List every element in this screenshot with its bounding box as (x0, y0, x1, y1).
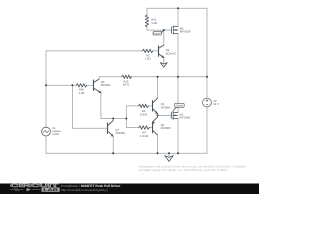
svg-text:2N3906: 2N3906 (161, 126, 171, 130)
resistor R6 (139, 126, 150, 129)
source V1 square 4kHz (42, 127, 51, 136)
wire R6 to Q2 base (149, 127, 152, 129)
source V2 12V (203, 98, 212, 107)
wire R34 to Q6 base (87, 84, 94, 86)
wire Q6 collector to R16 (99, 77, 122, 78)
wire Q6 base from left rail (46, 84, 76, 86)
resistor R3 (143, 49, 153, 52)
mosfet M2 IRF9530 (P-ch) (172, 26, 179, 34)
wire top-left horizontal to R3 (46, 50, 143, 52)
svg-text:2N3904: 2N3904 (115, 131, 125, 135)
footer bar (0, 183, 259, 194)
svg-text:12 V: 12 V (213, 102, 219, 106)
resistor R41 (145, 15, 148, 27)
wire Q7 collector up to input wire (112, 119, 114, 121)
svg-text:simulate using CircuitLab, run: simulate using CircuitLab, run the NPN p… (139, 169, 228, 172)
logo LAB box (42, 188, 60, 192)
resistor R2 (139, 104, 149, 107)
svg-text:1 kΩ: 1 kΩ (78, 91, 84, 95)
logo wire + arrow (10, 188, 40, 190)
wire right rail lower (V2 minus to bottom rail) (206, 107, 208, 153)
wire Q7 base from left branch vertical (72, 85, 107, 128)
node GateP flag (153, 30, 164, 35)
wire gate node to M1 gate (158, 114, 172, 116)
svg-text:220 Ω: 220 Ω (140, 112, 148, 116)
wire Q4 collector vertical to GateP node (163, 30, 165, 45)
wire Q4 emitter vertical to ground (163, 58, 165, 63)
wire R41 top stub (146, 8, 148, 15)
svg-text:2N3904: 2N3904 (101, 83, 111, 87)
wire top rail +12V (147, 7, 207, 9)
wire bottom ground rail (46, 152, 207, 154)
svg-text:LAB: LAB (43, 188, 58, 192)
wire right rail upper (to V2 plus) (206, 8, 208, 98)
wire Q6 emitter down and right to input node (101, 93, 126, 119)
svg-text:2N3904: 2N3904 (161, 105, 171, 109)
wire R2 to Q1 base (148, 105, 152, 107)
wire Q4 ground stub (163, 58, 165, 62)
wire left rail lower (V1 minus to bottom rail) (45, 136, 47, 153)
ground (Q4 emitter) (160, 63, 167, 68)
wire R41 bottom to corner to M2 gate (147, 28, 172, 30)
transistor Q1 2N3904 (153, 98, 158, 113)
wire R16 to right rail with taps (130, 76, 207, 78)
wire R3 to Q4 base (153, 50, 159, 52)
svg-text:IRF2404: IRF2404 (180, 116, 191, 120)
svg-text:4 kHz: 4 kHz (52, 132, 60, 136)
svg-text:GateN: GateN (176, 105, 184, 108)
svg-text:GateP: GateP (154, 33, 162, 36)
wire M1 source lead down to bottom rail (177, 118, 179, 153)
wire ground stub below bottom rail (168, 153, 170, 156)
transistor Q2 2N3906 (PNP) (153, 117, 158, 135)
svg-text:40 Ω: 40 Ω (123, 82, 129, 86)
mosfet M1 IRF2404 (N-ch) (171, 111, 178, 119)
wire Q1 collector up to y77 node (157, 77, 159, 98)
svg-text:BC547C: BC547C (166, 52, 177, 56)
svg-text:http://circuitlab.com/cqczk3g4: http://circuitlab.com/cqczk3g4b4yrj (61, 188, 108, 192)
wire left rail upper (corner to V1 plus) (45, 51, 47, 127)
wire Q1 emitter down to gate node (157, 114, 159, 118)
wire input node up to R2 (126, 106, 138, 119)
resistor R34 (76, 84, 86, 87)
wire M2 source lead up to top rail (177, 8, 179, 26)
svg-text:IRF9530: IRF9530 (180, 30, 191, 34)
svg-text:1 kΩ: 1 kΩ (145, 57, 151, 61)
transistor Q7 2N3904 (108, 121, 114, 137)
svg-text:4.3 kΩ: 4.3 kΩ (140, 134, 148, 138)
svg-text:1 kΩ: 1 kΩ (151, 21, 157, 25)
ground (bottom rail) (165, 156, 174, 162)
resistor R16 (122, 75, 132, 78)
annotation text block (139, 166, 246, 176)
node GateN flag (173, 103, 185, 111)
wire Q2 collector down to bottom rail (157, 135, 159, 153)
transistor Q4 BC547C (159, 45, 164, 58)
wire Q7 emitter down to bottom rail (112, 136, 114, 153)
wire input node down to R6 (126, 119, 139, 128)
wire M1 drain lead up to y77 node (177, 77, 179, 113)
transistor Q6 2N3904 (94, 79, 101, 93)
wire M2 drain lead down to node at y77 (177, 33, 179, 76)
